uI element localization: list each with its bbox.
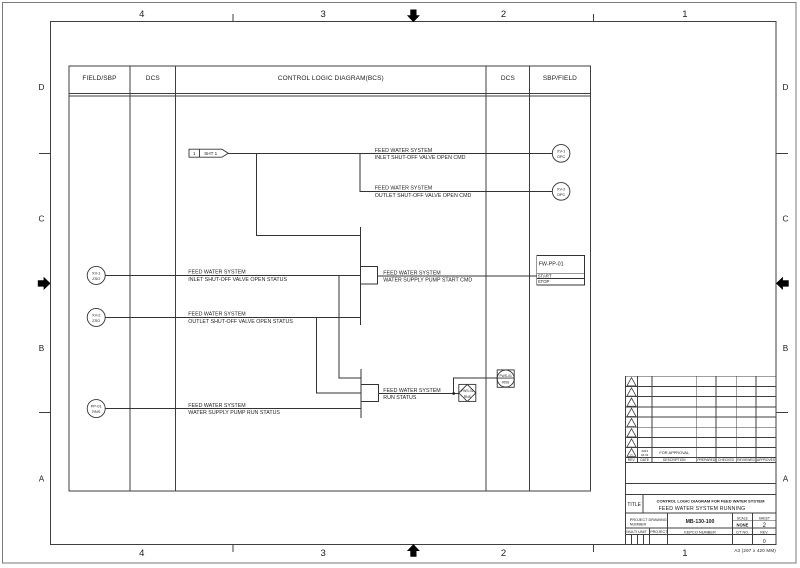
svg-text:INLET SHUT-OFF VALVE OPEN STAT: INLET SHUT-OFF VALVE OPEN STATUS: [188, 277, 287, 283]
svg-text:0: 0: [631, 453, 633, 457]
motor control box FW-PP-01 START/STOP: [537, 256, 585, 285]
svg-text:FEED WATER SYSTEM: FEED WATER SYSTEM: [383, 388, 440, 394]
svg-text:FEED WATER SYSTEM RUNNING: FEED WATER SYSTEM RUNNING: [659, 506, 746, 512]
wire label run status out: [383, 388, 440, 401]
svg-text:RNS: RNS: [464, 395, 472, 399]
svg-text:1: 1: [193, 151, 196, 156]
svg-text:WATER SUPPLY PUMP RUN STATUS: WATER SUPPLY PUMP RUN STATUS: [188, 410, 280, 416]
svg-text:APPROVED: APPROVED: [757, 458, 776, 462]
svg-text:04.01: 04.01: [641, 453, 649, 457]
DCS display symbol FWS-01 RNS (circle in square): [497, 370, 514, 387]
svg-text:START: START: [538, 274, 552, 279]
revision header labels: [628, 458, 776, 462]
wire label pump run status: [188, 403, 280, 416]
zone tick left B/A: [39, 412, 51, 414]
svg-text:CONTROL LOGIC DIAGRAM FOR FEED: CONTROL LOGIC DIAGRAM FOR FEED WATER SYS…: [657, 499, 766, 504]
svg-text:C/T NO.: C/T NO.: [736, 530, 749, 534]
zone tick bottom 2/1: [593, 545, 595, 553]
off-sheet connector flag SHT 1: [189, 149, 228, 157]
wire inlet open status: [105, 274, 361, 276]
svg-text:XV-1: XV-1: [557, 148, 565, 153]
input rail of start logic: [360, 227, 362, 325]
svg-text:FEED WATER SYSTEM: FEED WATER SYSTEM: [188, 403, 245, 409]
svg-text:CHECKED: CHECKED: [718, 458, 735, 462]
revision table rows: [626, 385, 777, 387]
svg-text:B: B: [783, 344, 789, 353]
svg-text:FWS-01: FWS-01: [499, 374, 512, 378]
svg-text:XV-2: XV-2: [92, 312, 100, 317]
svg-text:B: B: [39, 344, 45, 353]
svg-text:0: 0: [763, 539, 766, 545]
svg-text:PROJECT DRAWING: PROJECT DRAWING: [630, 518, 667, 522]
svg-text:FEED WATER SYSTEM: FEED WATER SYSTEM: [375, 148, 432, 154]
wire run status out: [378, 393, 458, 395]
svg-text:A: A: [39, 474, 45, 483]
revision table columns: [636, 376, 638, 462]
centering arrow bottom: [407, 544, 420, 557]
input rail of run logic: [360, 369, 362, 418]
wire pump start cmd: [378, 275, 537, 277]
svg-text:DATE: DATE: [640, 458, 649, 462]
project drawing number label: [630, 518, 667, 527]
svg-text:C: C: [783, 214, 789, 223]
svg-text:RUN STATUS: RUN STATUS: [383, 395, 417, 401]
svg-text:CONTROL LOGIC DIAGRAM(BCS): CONTROL LOGIC DIAGRAM(BCS): [278, 75, 384, 82]
centering arrow left: [38, 277, 51, 290]
svg-text:TITLE: TITLE: [627, 502, 641, 508]
instrument bubble XV-1 OPC: [552, 145, 570, 163]
svg-text:NONE: NONE: [736, 522, 748, 527]
svg-text:KEPCO NUMBER: KEPCO NUMBER: [684, 529, 716, 534]
svg-text:FOR APPROVAL: FOR APPROVAL: [659, 450, 690, 455]
svg-text:D: D: [39, 83, 45, 92]
wire branch outlet status to run logic: [317, 317, 361, 393]
title block outline: [626, 376, 777, 544]
svg-text:FEED WATER SYSTEM: FEED WATER SYSTEM: [188, 312, 245, 318]
svg-text:SHEET: SHEET: [759, 517, 770, 521]
wire label inlet status: [188, 270, 287, 283]
wire label pump start cmd: [383, 270, 472, 283]
svg-text:ZSO: ZSO: [92, 318, 100, 323]
svg-text:REV.: REV.: [628, 458, 636, 462]
svg-text:RNS: RNS: [92, 409, 101, 414]
instrument bubble XV-1 ZSO: [87, 266, 105, 284]
wire branch to rail1 from sht1: [257, 153, 361, 235]
BCS display symbol FWS-01 RNS (diamond in square): [459, 384, 476, 401]
svg-text:A3 (297 x 420 MM): A3 (297 x 420 MM): [734, 548, 776, 553]
revision marker triangles: [627, 378, 636, 457]
svg-text:A: A: [783, 474, 789, 483]
svg-text:REVIEWED: REVIEWED: [737, 458, 755, 462]
wire inlet open cmd: [228, 152, 552, 154]
svg-text:FEED WATER SYSTEM: FEED WATER SYSTEM: [375, 186, 432, 192]
svg-text:PROJECT: PROJECT: [650, 530, 668, 534]
multi unit row: [626, 533, 777, 535]
svg-text:DCS: DCS: [501, 75, 516, 82]
centering arrow right: [776, 277, 789, 290]
logic table outline: [69, 66, 590, 491]
zone tick bottom 4/3: [232, 545, 234, 553]
flag texts: [193, 151, 218, 156]
revision 0 triangle: [627, 448, 636, 456]
svg-text:FIELD/SBP: FIELD/SBP: [82, 75, 116, 82]
svg-text:OPC: OPC: [557, 154, 566, 159]
svg-text:D: D: [783, 83, 789, 92]
svg-text:4: 4: [139, 9, 144, 20]
band rules: [626, 482, 777, 484]
svg-text:SCALE: SCALE: [737, 517, 749, 521]
table column divider DCS|BCS: [175, 66, 177, 491]
number row: [626, 527, 777, 529]
zone tick right B/A: [776, 412, 788, 414]
svg-text:4: 4: [139, 548, 144, 559]
logic box start cmd: [361, 267, 378, 284]
svg-text:STOP: STOP: [538, 279, 550, 284]
svg-text:SHT 1: SHT 1: [204, 151, 217, 156]
svg-text:SBP/FIELD: SBP/FIELD: [543, 75, 577, 82]
svg-text:PREPARED: PREPARED: [697, 458, 716, 462]
svg-text:PP-01: PP-01: [91, 404, 102, 409]
table column divider BCS|DCS: [485, 66, 487, 491]
instrument bubble XV-2 ZSO: [87, 308, 105, 326]
zone tick top 2/1: [593, 14, 595, 22]
svg-text:RNS: RNS: [502, 380, 510, 384]
svg-text:DCS: DCS: [146, 75, 161, 82]
centering arrow top: [407, 10, 420, 23]
wire pump run status input: [105, 408, 361, 410]
svg-text:1: 1: [682, 9, 687, 20]
unit tick cells: [630, 534, 632, 544]
junction dot run status: [452, 392, 455, 395]
svg-text:OUTLET SHUT-OFF VALVE OPEN STA: OUTLET SHUT-OFF VALVE OPEN STATUS: [188, 319, 293, 325]
title row: [626, 512, 777, 514]
header double rule: [69, 92, 590, 94]
wire label outlet status: [188, 312, 293, 325]
wire branch inlet status to run logic: [339, 275, 361, 377]
svg-text:C: C: [39, 214, 45, 223]
svg-text:XV-2: XV-2: [557, 186, 565, 191]
svg-text:MULTI UNIT: MULTI UNIT: [626, 530, 647, 534]
wire branch outlet cmd: [360, 153, 552, 191]
revision date: [641, 449, 649, 457]
zone tick left D/C: [39, 153, 51, 155]
zone tick right D/C: [776, 153, 788, 155]
svg-text:FW-PP-01: FW-PP-01: [539, 262, 564, 268]
svg-text:INLET SHUT-OFF VALVE OPEN CMD: INLET SHUT-OFF VALVE OPEN CMD: [375, 155, 466, 161]
instrument bubble XV-2 OPC: [552, 183, 570, 201]
svg-text:3: 3: [321, 9, 326, 20]
svg-text:2: 2: [501, 9, 506, 20]
svg-text:ZSO: ZSO: [92, 276, 100, 281]
wire outlet open status: [105, 316, 361, 318]
instrument bubble PP-01 RNS: [87, 400, 105, 418]
svg-text:1: 1: [682, 548, 687, 559]
svg-text:NUMBER: NUMBER: [630, 523, 647, 527]
svg-text:FEED WATER SYSTEM: FEED WATER SYSTEM: [383, 270, 440, 276]
svg-text:REV.: REV.: [760, 530, 768, 534]
svg-text:3: 3: [321, 548, 326, 559]
svg-text:XV-1: XV-1: [92, 270, 100, 275]
wire branch run status up to DCS symbol: [454, 378, 498, 393]
svg-text:WATER SUPPLY PUMP START CMD: WATER SUPPLY PUMP START CMD: [383, 278, 472, 284]
logic box run status: [361, 384, 379, 401]
wire label inlet cmd: [375, 148, 466, 161]
table column divider FIELD/SBP|DCS: [129, 66, 131, 491]
svg-text:MB-130-100: MB-130-100: [686, 519, 715, 525]
svg-text:DESCRIPTION: DESCRIPTION: [663, 458, 686, 462]
svg-text:OUTLET SHUT-OFF VALVE OPEN CMD: OUTLET SHUT-OFF VALVE OPEN CMD: [375, 193, 472, 199]
zone tick top 4/3: [232, 14, 234, 22]
svg-text:OPC: OPC: [557, 192, 566, 197]
svg-text:FEED WATER SYSTEM: FEED WATER SYSTEM: [188, 270, 245, 276]
wire label outlet cmd: [375, 186, 472, 199]
table column divider DCS|SBP/FIELD: [529, 66, 531, 491]
svg-text:FWS-01: FWS-01: [461, 389, 474, 393]
svg-text:2: 2: [501, 548, 506, 559]
